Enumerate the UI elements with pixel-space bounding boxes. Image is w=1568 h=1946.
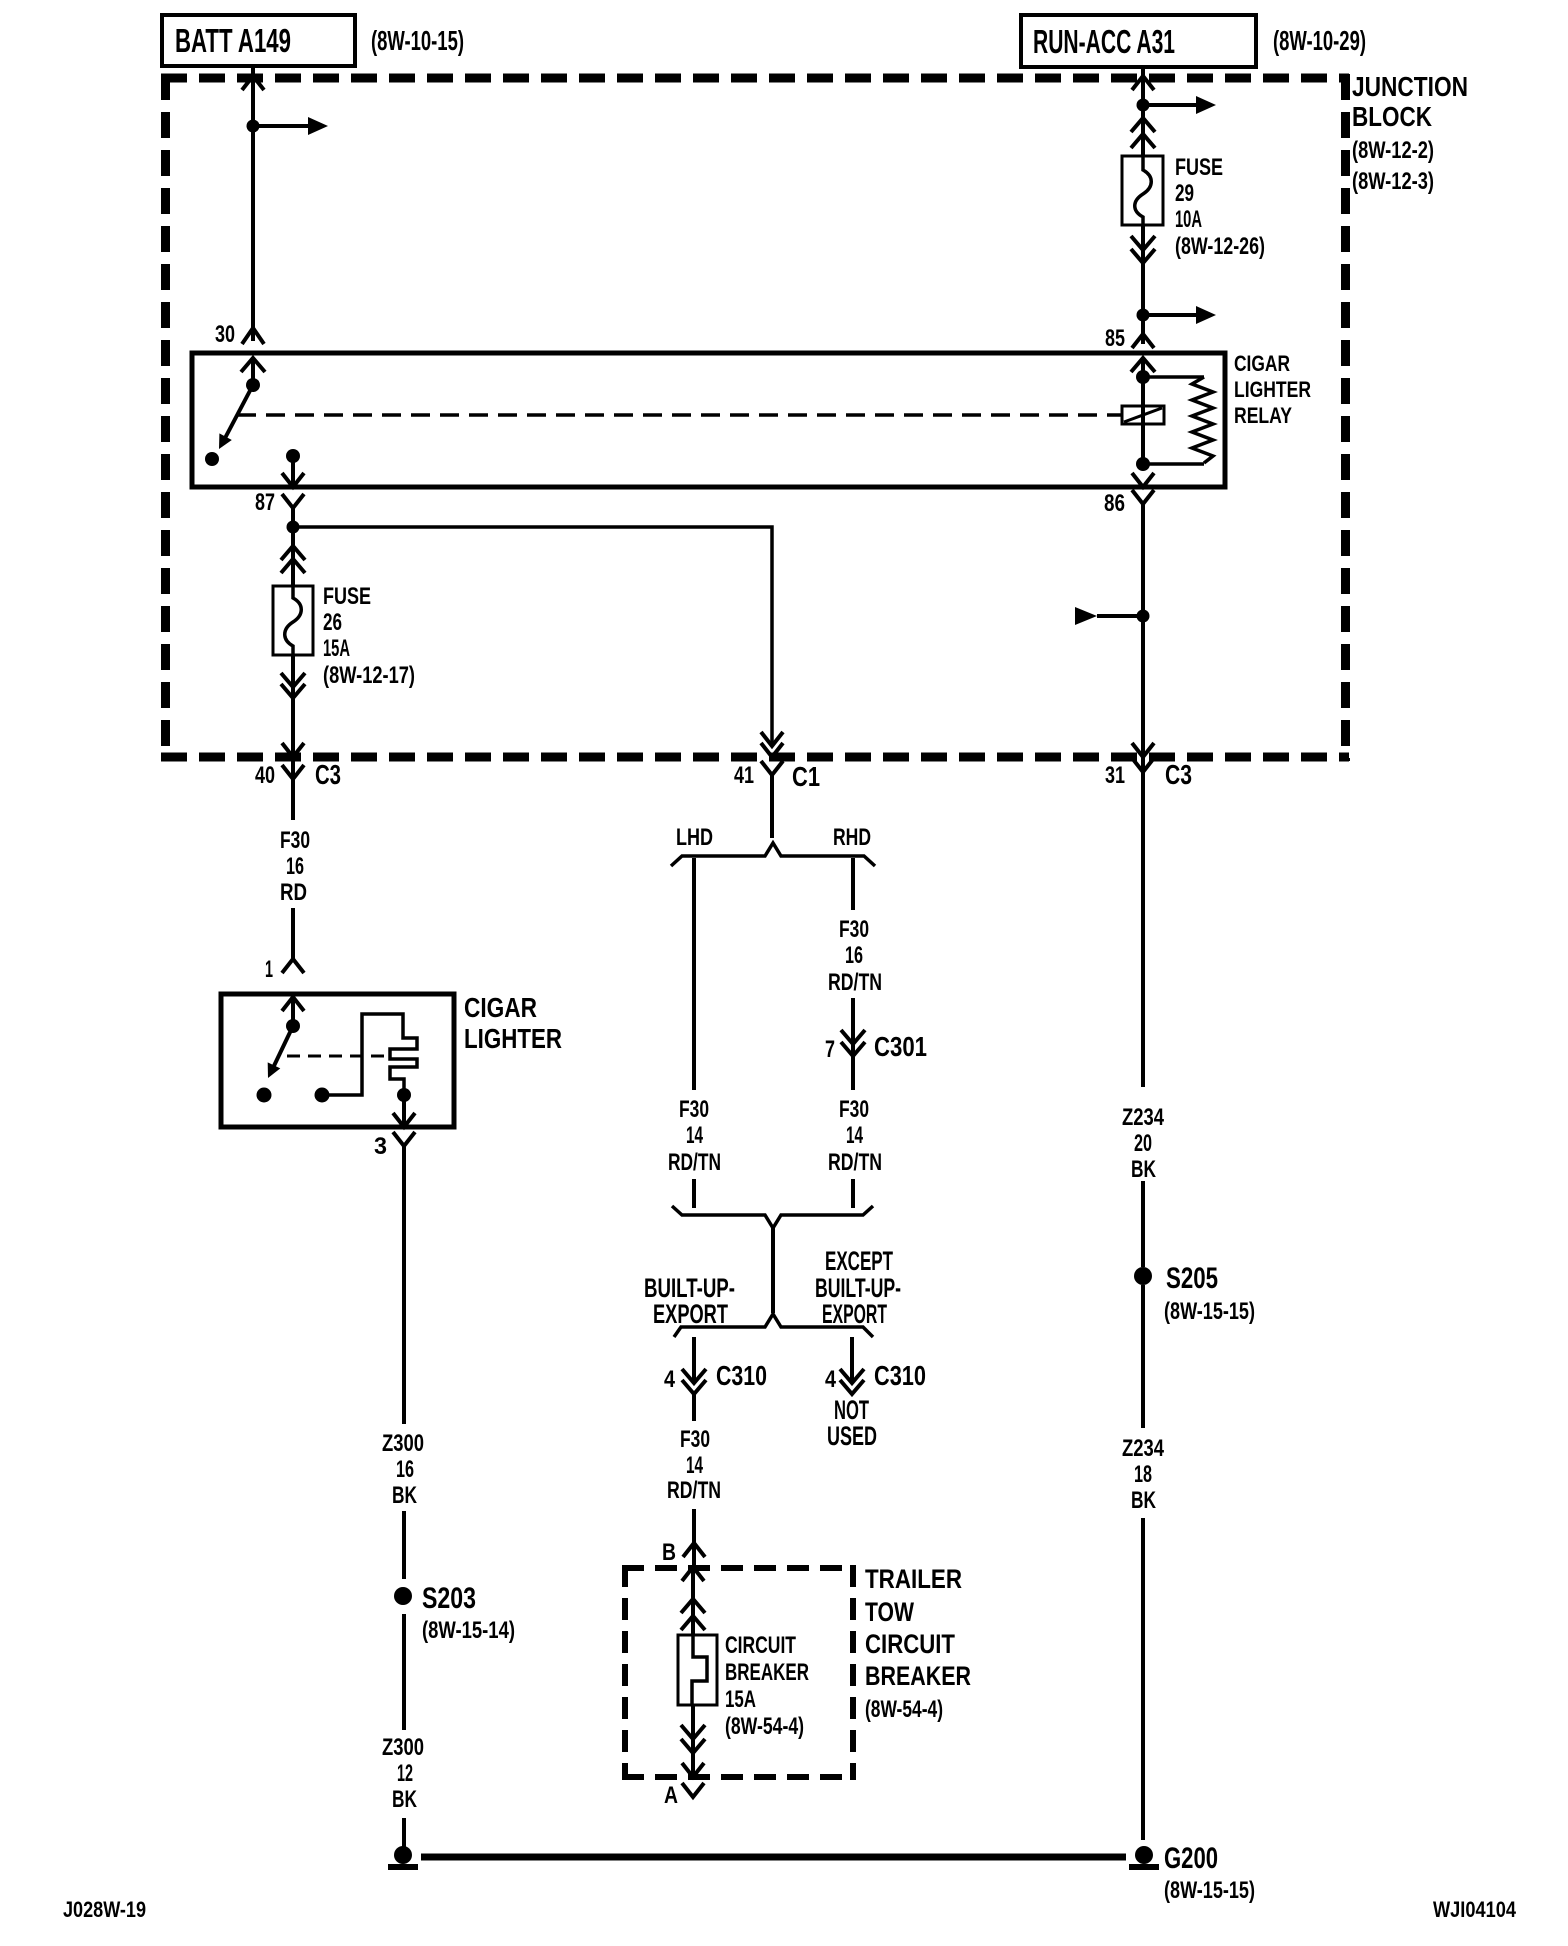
relay coil bottom dot (pin 86) <box>1136 457 1150 471</box>
relay control dashed line <box>237 413 1122 417</box>
svg-text:C1: C1 <box>792 761 820 792</box>
junction dot on BATT feed <box>247 120 260 133</box>
svg-text:16: 16 <box>396 1456 414 1483</box>
wire S203 down (Z300 12 BK) <box>402 1614 406 1730</box>
svg-text:14: 14 <box>846 1122 863 1149</box>
pin B chevron inside box <box>682 1567 704 1581</box>
connector 31 chevron at junction block border <box>1132 743 1154 757</box>
svg-text:(8W-10-15): (8W-10-15) <box>371 25 464 56</box>
double chevron below circuit breaker <box>681 1725 705 1739</box>
svg-text:LIGHTER: LIGHTER <box>464 1023 562 1054</box>
split bracket built-up-export <box>674 1314 873 1337</box>
branch arrow to other circuits (right) <box>1143 103 1196 107</box>
svg-text:C3: C3 <box>1165 759 1192 790</box>
relay switch NC contact dot <box>205 452 219 466</box>
cigar lighter control dashed line <box>287 1055 385 1058</box>
wire connector 31 down (Z234 20 BK) <box>1141 772 1145 1087</box>
svg-text:RD/TN: RD/TN <box>668 1149 721 1176</box>
svg-text:31: 31 <box>1105 762 1125 789</box>
svg-text:14: 14 <box>686 1122 703 1149</box>
svg-text:BREAKER: BREAKER <box>725 1659 809 1686</box>
wire left to C310 <box>692 1337 696 1383</box>
ground bus wire <box>421 1854 1126 1861</box>
svg-text:BK: BK <box>392 1482 417 1509</box>
svg-text:87: 87 <box>255 489 275 516</box>
svg-text:C310: C310 <box>874 1360 926 1391</box>
wire pin 87 to fuse 26 <box>291 508 295 586</box>
cigar lighter contact dot lower-left <box>257 1088 272 1103</box>
relay coil resistor top lead <box>1143 375 1204 379</box>
node RUN-ACC A31 box <box>1021 15 1256 67</box>
svg-text:(8W-15-15): (8W-15-15) <box>1164 1877 1255 1904</box>
wire pin30 to switch common <box>251 358 255 385</box>
svg-text:(8W-10-29): (8W-10-29) <box>1273 25 1366 56</box>
svg-text:15A: 15A <box>323 635 350 662</box>
svg-text:(8W-15-14): (8W-15-14) <box>422 1617 515 1644</box>
wire pin 86 down to connector 31 <box>1141 504 1145 772</box>
svg-text:29: 29 <box>1175 180 1194 207</box>
cigar lighter element output dot <box>397 1088 411 1102</box>
svg-text:4: 4 <box>825 1366 837 1393</box>
trailer tow circuit breaker dashed box left <box>622 1565 628 1780</box>
svg-text:30: 30 <box>215 321 235 348</box>
trailer tow circuit breaker dashed box bottom <box>622 1774 856 1780</box>
wire RHD into merge <box>851 1179 855 1208</box>
svg-text:EXCEPT: EXCEPT <box>825 1246 893 1276</box>
svg-text:EXPORT: EXPORT <box>653 1299 728 1329</box>
junction block dashed border right <box>1341 74 1350 761</box>
wire RHD to C301 <box>851 998 855 1056</box>
pin 1 chevron inside cigar lighter <box>282 997 304 1011</box>
svg-text:C3: C3 <box>315 759 341 790</box>
svg-text:Z234: Z234 <box>1122 1435 1165 1462</box>
svg-text:C301: C301 <box>874 1031 927 1062</box>
svg-text:USED: USED <box>827 1421 877 1451</box>
pin 86 chevron at relay box bottom <box>1132 473 1154 487</box>
svg-text:(8W-15-15): (8W-15-15) <box>1164 1298 1255 1325</box>
wire merged down <box>771 1228 775 1313</box>
wire S205 down (Z234 18 BK) <box>1141 1285 1145 1428</box>
cigar lighter heating element <box>322 1014 417 1095</box>
svg-text:BATT A149: BATT A149 <box>175 22 291 59</box>
LHD/RHD split bracket <box>671 843 875 866</box>
svg-text:BLOCK: BLOCK <box>1352 101 1432 132</box>
wire connector 41 down to LHD/RHD split <box>770 775 774 838</box>
svg-text:16: 16 <box>286 853 304 880</box>
trailer tow circuit breaker dashed box top <box>622 1565 856 1571</box>
wire pin 1 to switch dot <box>291 997 295 1026</box>
svg-text:(8W-12-2): (8W-12-2) <box>1352 137 1434 164</box>
pin 30 connector chevron inside relay <box>241 358 265 372</box>
ground G200 bar <box>1129 1864 1159 1870</box>
wire right to C310 <box>850 1337 854 1383</box>
svg-text:J028W-19: J028W-19 <box>63 1897 146 1922</box>
pin 87 chevron below relay box <box>282 494 304 508</box>
svg-text:BK: BK <box>1131 1156 1156 1183</box>
wire pin 87 down <box>291 456 295 487</box>
svg-text:F30: F30 <box>280 827 310 854</box>
junction dot pin 87 branch <box>287 521 300 534</box>
svg-text:BK: BK <box>392 1786 417 1813</box>
svg-text:BREAKER: BREAKER <box>865 1661 971 1691</box>
svg-text:15A: 15A <box>725 1686 756 1713</box>
connector C310 right double chevron <box>840 1369 864 1383</box>
junction dot pin 85 branch <box>1137 309 1150 322</box>
connector chevron at junction block top (BATT feed) <box>242 76 264 90</box>
svg-text:16: 16 <box>845 942 863 969</box>
wire Z234 to splice S205 <box>1141 1181 1145 1267</box>
cigar lighter switch arm with arrowhead <box>272 1026 293 1070</box>
junction block dashed border bottom <box>161 753 1349 762</box>
double chevron below fuse 26 <box>281 673 305 687</box>
junction block dashed border left <box>161 74 170 761</box>
wire Z300 to splice S203 <box>402 1511 406 1579</box>
svg-text:TRAILER: TRAILER <box>865 1564 962 1594</box>
svg-text:B: B <box>662 1539 676 1566</box>
svg-text:FUSE: FUSE <box>1175 154 1223 181</box>
svg-text:(8W-54-4): (8W-54-4) <box>725 1713 804 1740</box>
svg-text:EXPORT: EXPORT <box>822 1299 887 1329</box>
svg-text:CIGAR: CIGAR <box>1234 351 1290 376</box>
svg-text:85: 85 <box>1105 325 1125 352</box>
svg-text:86: 86 <box>1104 490 1125 517</box>
svg-text:RUN-ACC A31: RUN-ACC A31 <box>1033 23 1175 60</box>
svg-text:JUNCTION: JUNCTION <box>1352 71 1468 102</box>
svg-text:14: 14 <box>686 1452 703 1479</box>
relay switch arm with arrowhead <box>224 385 253 440</box>
pin 3 chevron at cigar lighter box bottom <box>393 1113 415 1127</box>
svg-text:(8W-12-17): (8W-12-17) <box>323 662 415 689</box>
svg-text:1: 1 <box>265 956 273 983</box>
relay pin 87 contact dot <box>286 449 300 463</box>
ground bar left <box>388 1864 418 1870</box>
junction dot on pin 86 wire <box>1137 610 1150 623</box>
pin 87 chevron at relay box bottom <box>282 473 304 487</box>
wire fuse 26 to connector 40 <box>291 655 295 779</box>
branch arrow to other circuits (right of 85) <box>1143 313 1196 317</box>
wire pin B to circuit breaker <box>691 1567 695 1635</box>
double chevron above fuse 26 <box>281 546 305 560</box>
pin 85 connector chevron outside relay <box>1132 334 1154 348</box>
wire fuse 29 to relay pin 85 <box>1141 225 1145 344</box>
svg-text:(8W-12-3): (8W-12-3) <box>1352 168 1434 195</box>
pin A chevron at dashed box bottom <box>682 1763 704 1777</box>
svg-text:Z300: Z300 <box>382 1734 424 1761</box>
wire LHD branch <box>692 858 696 1090</box>
wire Z234 18 BK to ground G200 <box>1141 1518 1145 1840</box>
svg-text:4: 4 <box>664 1366 676 1393</box>
fuse 29 element <box>1135 156 1152 226</box>
svg-text:10A: 10A <box>1175 206 1202 233</box>
svg-text:CIRCUIT: CIRCUIT <box>725 1632 796 1659</box>
wire pin85 through coil to pin 86 <box>1141 358 1145 465</box>
cigar lighter switch dot <box>286 1019 300 1033</box>
wire RHD branch <box>851 858 855 910</box>
svg-text:C310: C310 <box>716 1360 767 1391</box>
svg-text:12: 12 <box>397 1760 413 1787</box>
svg-text:18: 18 <box>1134 1461 1152 1488</box>
svg-text:A: A <box>664 1782 678 1809</box>
svg-text:F30: F30 <box>680 1426 710 1453</box>
trailer tow circuit breaker dashed box right <box>850 1565 856 1780</box>
pin 3 chevron below box <box>393 1132 415 1146</box>
connector 41 chevron below border <box>761 761 783 775</box>
connector chevron at junction block top (RUN-ACC feed) <box>1132 76 1154 90</box>
svg-text:RD/TN: RD/TN <box>667 1477 721 1504</box>
pin 85 chevron inside relay <box>1131 358 1155 372</box>
pin A chevron below box <box>682 1783 704 1797</box>
svg-text:RD/TN: RD/TN <box>828 1149 882 1176</box>
pin 86 chevron below relay box <box>1132 490 1154 504</box>
svg-text:(8W-12-26): (8W-12-26) <box>1175 233 1265 260</box>
svg-text:S205: S205 <box>1166 1262 1218 1295</box>
svg-text:LHD: LHD <box>676 824 713 851</box>
svg-text:S203: S203 <box>422 1582 476 1615</box>
circuit breaker element <box>692 1635 707 1705</box>
pin 1 connector chevron outside cigar lighter <box>282 959 304 973</box>
fuse 29 box <box>1122 156 1163 225</box>
svg-text:RD/TN: RD/TN <box>828 969 882 996</box>
fuse 26 element <box>285 586 302 655</box>
node BATT A149 box <box>162 15 355 66</box>
wire RUN-ACC A31 down to fuse 29 <box>1141 67 1145 156</box>
branch arrow feeding pin 86 wire <box>1075 607 1097 625</box>
svg-text:20: 20 <box>1134 1130 1152 1157</box>
wire pin 3 down (Z300) <box>402 1146 406 1424</box>
svg-text:(8W-54-4): (8W-54-4) <box>865 1696 943 1723</box>
svg-text:CIGAR: CIGAR <box>464 992 537 1023</box>
wire connector 40 down <box>291 779 295 820</box>
pin 30 connector chevron outside relay <box>242 328 264 344</box>
connector C310 left double chevron <box>682 1369 706 1383</box>
svg-text:F30: F30 <box>679 1096 709 1123</box>
relay coil actuator box <box>1122 406 1164 424</box>
wire branch to connector 41 C1 <box>293 527 772 746</box>
ground G200 dot <box>1135 1846 1153 1864</box>
wire element to pin 3 <box>402 1095 406 1127</box>
svg-text:LIGHTER: LIGHTER <box>1234 377 1311 402</box>
wire circuit breaker to pin A <box>691 1705 695 1777</box>
connector 31 chevron below border <box>1132 758 1154 772</box>
svg-text:WJI04104: WJI04104 <box>1433 1897 1517 1922</box>
wire C310 left down <box>692 1394 696 1421</box>
svg-text:26: 26 <box>323 609 342 636</box>
relay switch common dot <box>246 378 260 392</box>
connector 40 chevron at junction block border <box>282 743 304 757</box>
wire from BATT A149 down to relay pin 30 <box>251 67 255 341</box>
double chevron below fuse 29 <box>1131 236 1155 250</box>
splice S203 dot <box>394 1587 412 1605</box>
svg-text:G200: G200 <box>1164 1842 1218 1875</box>
wire C301 down <box>851 1056 855 1090</box>
svg-text:FUSE: FUSE <box>323 583 371 610</box>
double chevron above fuse 29 <box>1131 118 1155 132</box>
merge bracket <box>672 1206 873 1228</box>
splice S205 dot <box>1134 1267 1152 1285</box>
wire Z300 12 BK to ground bus <box>402 1818 406 1848</box>
svg-text:Z234: Z234 <box>1122 1104 1165 1131</box>
cigar lighter element feed dot <box>315 1088 330 1103</box>
ground terminal dot left <box>394 1846 412 1864</box>
wire F30 16 RD to cigar lighter pin 1 <box>291 908 295 959</box>
junction dot on RUN-ACC feed <box>1137 99 1150 112</box>
svg-text:CIRCUIT: CIRCUIT <box>865 1629 955 1659</box>
svg-text:F30: F30 <box>839 1096 869 1123</box>
svg-text:F30: F30 <box>839 916 869 943</box>
wire LHD into merge <box>692 1179 696 1208</box>
svg-text:RHD: RHD <box>833 824 871 851</box>
relay coil energize dot (pin 85) <box>1136 370 1150 384</box>
svg-text:Z300: Z300 <box>382 1430 424 1457</box>
branch arrow to other circuits (right) <box>253 124 308 128</box>
cigar lighter box <box>221 994 454 1127</box>
wire F30 14 RD/TN to trailer tow pin B <box>692 1509 696 1567</box>
svg-text:7: 7 <box>825 1036 835 1063</box>
junction block dashed border top <box>161 74 1349 83</box>
relay coil resistor zigzag <box>1192 377 1213 463</box>
svg-text:BK: BK <box>1131 1487 1156 1514</box>
connector 41 double chevron above junction border <box>761 732 783 746</box>
circuit breaker box <box>678 1635 717 1705</box>
cigar lighter relay box <box>192 353 1225 487</box>
svg-text:RELAY: RELAY <box>1234 403 1292 428</box>
svg-text:3: 3 <box>374 1133 387 1160</box>
svg-text:41: 41 <box>734 762 754 789</box>
fuse 26 box <box>273 586 313 655</box>
pin B connector chevron <box>683 1543 705 1557</box>
relay coil resistor bottom lead <box>1143 462 1204 466</box>
connector 40 chevron below border <box>282 765 304 779</box>
svg-text:RD: RD <box>280 879 307 906</box>
svg-text:40: 40 <box>255 762 275 789</box>
svg-text:TOW: TOW <box>865 1597 914 1627</box>
connector C301 double chevron <box>841 1030 865 1044</box>
double chevron above circuit breaker <box>681 1599 705 1613</box>
